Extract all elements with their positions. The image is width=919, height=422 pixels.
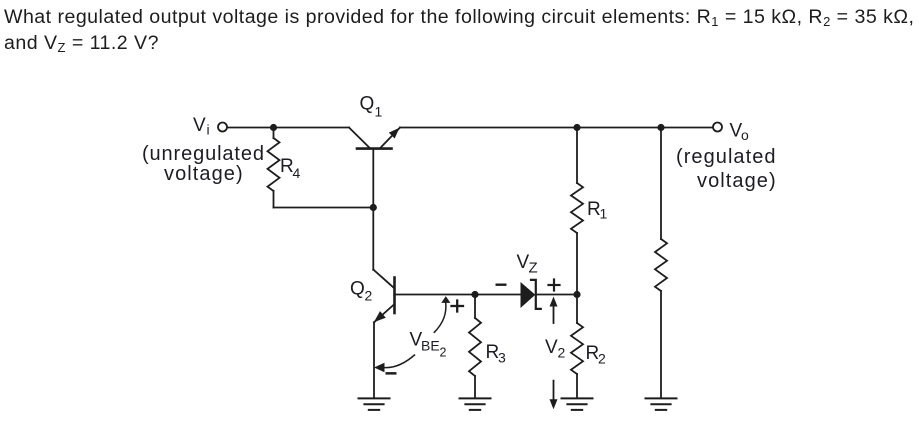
curved arrow VBE2 minus — [374, 355, 415, 372]
resistor R3 — [469, 295, 481, 399]
label R3 — [486, 342, 507, 366]
ground (R2) — [562, 398, 593, 410]
svg-text:Q: Q — [350, 279, 365, 300]
wire Q1 base down to Q2 collector — [372, 149, 374, 270]
label VBE2 — [410, 329, 447, 359]
svg-text:2: 2 — [440, 346, 447, 360]
svg-text:1: 1 — [600, 206, 608, 222]
node B (junction R1 / top rail) — [573, 124, 580, 131]
svg-text:V: V — [545, 337, 558, 358]
wire Q1 emitter to Vo — [400, 127, 714, 129]
svg-text:o: o — [741, 127, 749, 143]
label V2 — [545, 337, 566, 361]
question text — [4, 5, 914, 57]
ground (R3) — [460, 398, 491, 410]
arrow V2 plus side (up arrow) — [550, 297, 558, 324]
wire zener cathode to node F — [536, 294, 577, 296]
plus sign (zener right) — [549, 280, 560, 291]
curved arrow VBE2 plus — [434, 296, 450, 332]
zener diode VZ — [521, 280, 541, 309]
wire Q2 base to node E — [395, 294, 476, 296]
svg-text:2: 2 — [598, 351, 606, 367]
label R1 — [587, 199, 608, 222]
svg-text:2: 2 — [365, 288, 373, 304]
node F (junction R1 / R2 / zener) — [573, 291, 580, 298]
transistor Q1 — [349, 128, 400, 149]
wire Q2 emitter to ground — [373, 322, 375, 398]
label Vo — [730, 120, 750, 143]
node D (junction R4 / Q1 base lead) — [370, 204, 377, 211]
plus sign (VBE2) — [452, 301, 464, 312]
arrow V2 minus side (down arrow) — [550, 381, 558, 410]
label Q2 — [350, 279, 373, 304]
wire R4 bottom to Q1 base node — [274, 207, 374, 209]
resistor R4 — [268, 128, 280, 208]
resistor R1 — [571, 128, 583, 295]
svg-text:V: V — [193, 115, 206, 136]
resistor R2 — [571, 295, 583, 399]
terminal Vi (open circle) — [218, 123, 227, 132]
svg-text:1: 1 — [375, 104, 383, 120]
wire Vi to node A — [227, 127, 274, 129]
svg-text:2: 2 — [558, 345, 566, 361]
label Vi — [193, 115, 210, 138]
minus sign (zener left) — [496, 284, 507, 286]
label Vi (unregulated voltage) — [142, 144, 265, 164]
svg-text:Z: Z — [529, 260, 538, 277]
terminal Vo (open circle) — [713, 123, 722, 132]
node E (junction Q2 base / R3 / zener) — [471, 291, 478, 298]
ground (load) — [646, 398, 677, 410]
label R2 — [586, 343, 607, 367]
wire node A to Q1 collector — [274, 127, 350, 129]
label Vo (regulated voltage) — [676, 147, 777, 167]
transistor Q2 — [373, 270, 394, 323]
svg-text:BE: BE — [421, 338, 440, 354]
node A (junction Vi / R4 / Q1 collector) — [270, 124, 277, 131]
node C (junction load resistor / top rail) — [657, 124, 664, 131]
svg-text:3: 3 — [498, 350, 506, 366]
label VZ — [517, 252, 538, 277]
resistor RL (load) — [655, 128, 667, 399]
label Q1 — [360, 94, 383, 120]
ground (Q2 emitter) — [359, 398, 390, 410]
svg-text:4: 4 — [293, 165, 301, 181]
minus sign (VBE2) — [386, 372, 397, 375]
label R4 — [280, 156, 301, 181]
svg-text:Q: Q — [360, 94, 375, 115]
wire node E to zener anode — [475, 294, 521, 296]
svg-text:i: i — [207, 122, 210, 138]
